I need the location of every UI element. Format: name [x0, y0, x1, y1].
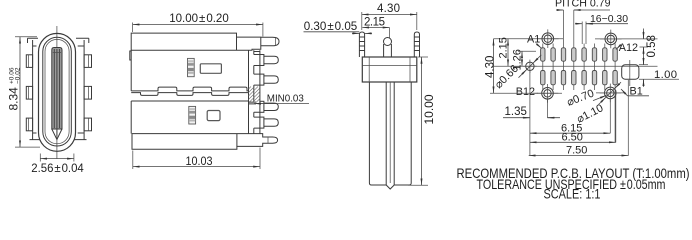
- dim 1.26 vertical: [521, 51, 523, 66]
- row centerline horizontal: [494, 65, 658, 67]
- dim 10.00 line: [133, 24, 263, 26]
- dia 0.66 arrow: [519, 69, 527, 77]
- 16-0.30 arrows: [575, 23, 582, 25]
- svg-text:7.50: 7.50: [566, 145, 587, 157]
- MIN0.03 leader underline: [254, 103, 309, 105]
- pin tip inner line: [274, 38, 276, 46]
- ext 1.00 top: [639, 64, 648, 66]
- NOTES text block: [457, 166, 690, 202]
- base plate: [132, 134, 278, 150]
- svg-text:2.15: 2.15: [497, 37, 509, 58]
- inner shell stadium: [43, 37, 72, 146]
- shell wave upper line: [131, 87, 248, 91]
- svg-text:B12: B12: [516, 86, 535, 98]
- svg-text:6.50: 6.50: [562, 132, 583, 144]
- shell top band: [131, 33, 261, 50]
- right tab 1: [84, 55, 91, 68]
- upper body left step: [130, 51, 131, 60]
- center post ball: [384, 38, 392, 46]
- A12 leader: [616, 46, 620, 50]
- tongue: [52, 48, 62, 130]
- right tab 3: [84, 118, 91, 131]
- MIN0.03 arrow: [254, 103, 266, 105]
- B1 underline: [628, 95, 650, 97]
- svg-text:−0.02: −0.02: [15, 67, 22, 84]
- ext B1 down: [609, 99, 611, 134]
- body inner lines: [362, 57, 417, 82]
- min gap lines: [249, 102, 257, 104]
- dim 10.00 ext right: [262, 23, 264, 37]
- svg-text:1.00: 1.00: [654, 69, 677, 81]
- dim 6.50 line: [530, 141, 616, 143]
- svg-text:16−0.30: 16−0.30: [590, 14, 628, 25]
- svg-text:0.58: 0.58: [646, 35, 658, 57]
- tongue tip vee: [52, 129, 62, 140]
- pads row A: [541, 48, 618, 61]
- dia 1.10 leader: [599, 97, 606, 104]
- VIEW2 side view: [130, 13, 309, 169]
- dim 8.34 line: [19, 37, 21, 147]
- pads row B: [541, 71, 618, 85]
- svg-text:1.35: 1.35: [505, 106, 527, 118]
- svg-text:4.30: 4.30: [484, 56, 496, 78]
- dim 2.56 extension left: [39, 154, 41, 162]
- B1 leader: [621, 89, 628, 96]
- centerline vertical: [56, 26, 58, 159]
- hole A1: [537, 29, 559, 48]
- pitch arrows: [556, 9, 563, 11]
- svg-text:2.15: 2.15: [364, 17, 385, 29]
- shell top-right horizontal pin: [261, 37, 279, 46]
- 16-0.30 ticks: [582, 22, 586, 45]
- VIEW4 pcb layout: [484, 0, 679, 157]
- dim 4.30 ext left: [361, 12, 363, 30]
- lower column: [369, 82, 411, 185]
- housing wave lower line: [131, 93, 248, 96]
- body block: [362, 57, 417, 82]
- left pin: [359, 32, 364, 57]
- base plate inner line: [236, 134, 238, 147]
- ext 4.30 bottom: [490, 92, 538, 94]
- dim 10.00 ext bottom: [408, 184, 428, 186]
- pitch leader lines: [564, 10, 574, 90]
- svg-text:SCALE: 1:1: SCALE: 1:1: [544, 187, 601, 199]
- right pin bands: [414, 37, 419, 51]
- dim 7.50 line: [529, 155, 629, 157]
- left tab 1: [26, 55, 32, 68]
- housing corner steps: [33, 46, 85, 133]
- svg-text:⌀1.10: ⌀1.10: [575, 102, 605, 125]
- VIEW1 front view: [7, 26, 92, 175]
- inner shell line 2: [45, 39, 69, 143]
- svg-text:PITCH 0.79: PITCH 0.79: [555, 0, 611, 10]
- svg-text:MIN0.03: MIN0.03: [267, 93, 305, 104]
- dim 4.30 ext right: [416, 12, 418, 30]
- right tab 2: [84, 86, 91, 99]
- svg-text:A1: A1: [527, 33, 540, 45]
- dim 2.56 extension right: [73, 154, 75, 162]
- B1 square centerline: [629, 60, 631, 86]
- dim 2.15 drop: [389, 28, 391, 39]
- dim 10.03 line: [133, 166, 260, 168]
- hole B12: [537, 84, 559, 103]
- dim 10.00 ext left: [132, 23, 134, 33]
- outer shell stadium: [39, 33, 76, 151]
- hole row line A: [494, 38, 658, 40]
- rail hatch section: [249, 87, 260, 103]
- dia 0.70 leader: [593, 95, 607, 100]
- lower ladder contact: [189, 106, 196, 124]
- svg-text:10.03: 10.03: [186, 156, 213, 168]
- dim 2.15 vertical: [507, 39, 509, 67]
- dim 0.30 leader line: [304, 31, 360, 33]
- tongue top cap: [53, 52, 61, 54]
- leg 3: [260, 101, 264, 112]
- upper ladder contact: [188, 58, 195, 76]
- ext B12 down: [547, 99, 549, 118]
- B1 square pad: [622, 65, 639, 80]
- dim 2.15 line: [362, 27, 389, 29]
- ext 1.26 top: [518, 50, 536, 52]
- upper body left edge: [130, 50, 132, 91]
- bottom tip: [386, 185, 394, 189]
- shell band inner line: [236, 37, 238, 50]
- svg-text:10.00 ± 0.20: 10.00 ± 0.20: [169, 13, 229, 25]
- leg 4: [260, 117, 264, 128]
- svg-text:2.56 ± 0.04: 2.56 ± 0.04: [31, 163, 84, 175]
- ext 1.00 bottom: [639, 78, 679, 80]
- svg-text:A12: A12: [619, 42, 638, 54]
- housing body rectangle: [28, 38, 89, 139]
- ext 0.58: [640, 46, 649, 48]
- center post: [384, 44, 392, 57]
- hole 0.66: [523, 60, 536, 73]
- dim 10.00v line: [421, 57, 423, 185]
- dim 8.34 extension bottom: [15, 146, 40, 148]
- ext 750 down: [627, 80, 629, 156]
- right contact rail: [249, 50, 260, 133]
- dim 6.15 line: [530, 132, 610, 134]
- svg-text:4.30: 4.30: [377, 3, 400, 15]
- lower window rect: [207, 111, 220, 121]
- ext 650 down: [615, 90, 617, 143]
- dim 1.35 line: [503, 117, 560, 119]
- hole A12: [600, 30, 622, 49]
- dim 10.03 ext right: [259, 148, 261, 170]
- left pin bands: [359, 37, 364, 51]
- A1 leader: [536, 44, 542, 49]
- upper window rect: [200, 64, 221, 74]
- right pin: [414, 32, 419, 57]
- pin inner line: [267, 137, 269, 143]
- leg 2: [260, 74, 264, 85]
- 16-0.30 underline: [586, 23, 628, 25]
- dim 10.03 ext left: [132, 151, 134, 170]
- lower body: [131, 101, 248, 134]
- dim 2.56 line: [40, 158, 74, 160]
- leg 1: [260, 55, 264, 66]
- dim 0.30 arrows: [352, 32, 359, 34]
- dim 10.00 ext top: [418, 56, 428, 58]
- left tab 2: [26, 86, 32, 99]
- dim 0.58 and 1.00 shared line: [643, 29, 645, 86]
- dim 4.30 line: [362, 14, 417, 16]
- hole row line B: [533, 92, 624, 94]
- dim 8.34 extension top: [15, 36, 37, 38]
- dim 4.30 vertical line: [493, 39, 495, 94]
- tongue contacts: [54, 49, 59, 137]
- hole B1: [600, 84, 622, 103]
- tongue lines: [386, 82, 394, 185]
- pitch underline: [574, 9, 610, 11]
- svg-text:8.34: 8.34: [7, 87, 21, 111]
- pad centerlines: [543, 44, 615, 143]
- svg-text:10.00: 10.00: [422, 94, 436, 124]
- VIEW3 end view: [304, 3, 437, 189]
- left vertical ref line: [529, 71, 531, 156]
- left tab 3: [26, 118, 32, 131]
